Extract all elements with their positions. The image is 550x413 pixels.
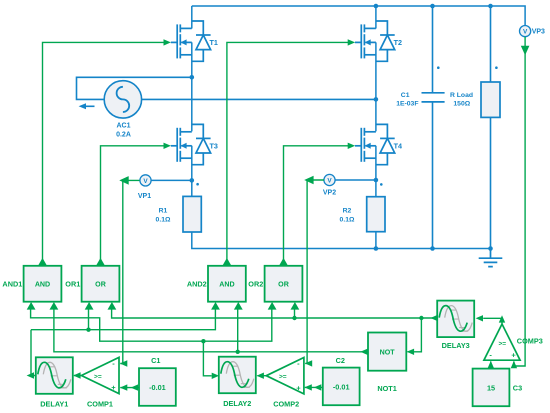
resistor R1 (0.1 ohm)	[183, 196, 201, 232]
wire: AND1 output to T1 gate	[43, 42, 165, 263]
AC source AC1 (0.2A)	[77, 77, 192, 99]
svg-text:0.1Ω: 0.1Ω	[340, 216, 355, 223]
svg-text:+: +	[511, 350, 516, 359]
svg-text:C2: C2	[336, 356, 345, 365]
svg-text:DELAY3: DELAY3	[442, 341, 470, 350]
transistor T4	[355, 124, 395, 164]
capacitor C1 (1E-03F)	[432, 6, 434, 249]
wire: C1 const to COMP1 plus input	[120, 387, 139, 389]
svg-text:V: V	[327, 177, 332, 184]
svg-text:OR: OR	[278, 281, 289, 289]
wire: top DC rail	[192, 6, 525, 26]
svg-text:T3: T3	[210, 141, 218, 150]
resistor R Load (150 ohm)	[490, 6, 492, 249]
node: green junction 2	[201, 339, 205, 343]
svg-text:R Load: R Load	[450, 92, 473, 99]
node: blue junction 9	[430, 246, 435, 251]
svg-text:DELAY1: DELAY1	[40, 399, 68, 408]
node: polarity dot 1	[196, 183, 199, 186]
svg-text:-0.01: -0.01	[149, 383, 166, 392]
svg-text:-0.01: -0.01	[333, 382, 350, 391]
wire: DELAY3 output net to OR1 in2, OR2 in2, NOT1 input	[112, 305, 438, 352]
svg-text:150Ω: 150Ω	[453, 100, 470, 107]
wire: C2 const to COMP2 plus input	[305, 386, 323, 388]
wire: COMP1 output to DELAY1	[74, 375, 81, 377]
comparator COMP2	[266, 358, 304, 409]
wire: VP2 tap down to COMP2 minus input	[305, 180, 324, 363]
node: blue junction 6	[430, 4, 435, 9]
node: blue junction 5	[374, 4, 379, 9]
svg-text:VP1: VP1	[138, 193, 151, 200]
wire: DELAY1 net to OR1 input 1 and AND2 input 1	[31, 305, 215, 330]
svg-text:1E-03F: 1E-03F	[396, 100, 418, 107]
svg-text:+: +	[111, 383, 116, 392]
node: green junction 5	[419, 316, 423, 320]
node: blue junction 3	[190, 178, 195, 183]
node: polarity dot 4	[495, 66, 498, 69]
node: blue junction 4	[374, 178, 379, 183]
svg-text:AND: AND	[219, 281, 234, 289]
wire: VP2 to T4 source node	[335, 179, 376, 181]
node: blue junction 7	[488, 4, 493, 9]
logic gate AND2	[208, 266, 246, 302]
svg-text:T4: T4	[394, 141, 402, 150]
svg-text:>=: >=	[498, 341, 506, 348]
svg-text:R2: R2	[343, 207, 352, 214]
svg-text:VP2: VP2	[323, 189, 336, 196]
logic gate NOT1	[368, 333, 406, 371]
resistor R2 (0.1 ohm)	[367, 197, 385, 232]
wire: OR1 output to T3 gate	[101, 146, 165, 263]
voltage probe VP1	[140, 175, 151, 186]
svg-text:+: +	[296, 383, 301, 392]
svg-text:C1: C1	[401, 92, 410, 99]
wire: DELAY1 output up to net	[31, 330, 36, 376]
wire: VP1 tap down to COMP1 minus input	[120, 180, 139, 363]
ground	[479, 249, 503, 267]
svg-text:OR: OR	[95, 281, 106, 289]
node: polarity dot 2	[380, 183, 383, 186]
transistor T1	[171, 21, 211, 61]
wire: left leg bus T1-T3 (x=191.8)	[191, 6, 193, 196]
wire: R2 bottom to rail	[375, 232, 377, 249]
svg-text:NOT1: NOT1	[377, 384, 396, 393]
node: blue junction 1	[190, 75, 195, 80]
logic gate OR1	[82, 266, 120, 302]
svg-text:T2: T2	[394, 38, 402, 47]
svg-text:VP3: VP3	[532, 29, 545, 36]
voltage probe VP3	[520, 26, 531, 37]
voltage probe VP2	[324, 174, 335, 185]
node: blue junction 10	[488, 246, 493, 251]
wire: COMP3 output to DELAY3 input	[483, 318, 502, 324]
delay block DELAY3	[437, 301, 474, 351]
node: blue junction 2	[374, 97, 379, 102]
transistor T3	[171, 124, 211, 164]
node: polarity dot 3	[437, 66, 440, 69]
svg-text:V: V	[143, 178, 148, 185]
svg-text:OR2: OR2	[248, 279, 263, 288]
svg-text:V: V	[523, 29, 528, 36]
node: green junction 4	[292, 316, 296, 320]
svg-text:15: 15	[487, 383, 495, 392]
svg-text:R1: R1	[159, 207, 168, 214]
svg-text:C3: C3	[513, 383, 522, 392]
constant block C3 (15)	[473, 369, 510, 407]
svg-text:COMP3: COMP3	[517, 336, 543, 345]
svg-text:COMP2: COMP2	[273, 399, 299, 408]
wire: AND1 input1 net to OR2 input1 with DELAY2 branch	[31, 305, 272, 376]
svg-text:AND2: AND2	[187, 279, 207, 288]
svg-text:AND1: AND1	[2, 279, 22, 288]
delay block DELAY1	[36, 357, 73, 408]
logic gate AND1	[24, 266, 62, 302]
svg-text:0.2A: 0.2A	[116, 131, 131, 138]
svg-text:COMP1: COMP1	[87, 399, 113, 408]
svg-text:0.1Ω: 0.1Ω	[156, 216, 171, 223]
wire: C3 const to COMP3 minus input	[490, 362, 492, 369]
wire: VP3 tap down to COMP3 plus input	[514, 37, 525, 366]
comparator COMP1	[81, 357, 119, 408]
wire: right leg bus T2-T4 (x=375.9)	[375, 6, 377, 197]
comparator COMP3	[484, 324, 543, 360]
wire: bottom rail	[192, 232, 491, 249]
transistor T2	[355, 21, 395, 61]
svg-text:>=: >=	[279, 374, 287, 381]
svg-text:AND: AND	[35, 281, 50, 289]
svg-text:OR1: OR1	[65, 279, 80, 288]
constant block C1 (-0.01)	[139, 368, 176, 406]
node: green junction 3	[236, 350, 240, 354]
constant block C2 (-0.01)	[323, 368, 360, 406]
svg-text:DELAY2: DELAY2	[223, 399, 251, 408]
svg-text:C1: C1	[151, 356, 160, 365]
svg-text:AC1: AC1	[116, 122, 130, 129]
wire: NOT1 output to AND1 in2 and AND2 in2	[54, 305, 368, 352]
logic gate OR2	[265, 266, 303, 302]
node: blue junction 8	[374, 246, 379, 251]
wire: OR2 output to T4 gate	[284, 146, 349, 263]
node: green junction 1	[86, 328, 90, 332]
svg-text:NOT: NOT	[380, 348, 396, 356]
wire: VP1 to T3 source node	[151, 179, 192, 181]
delay block DELAY2	[219, 357, 256, 408]
svg-text:>=: >=	[94, 373, 102, 380]
svg-text:T1: T1	[210, 38, 218, 47]
wire: AND2 output to T2 gate	[227, 42, 348, 263]
